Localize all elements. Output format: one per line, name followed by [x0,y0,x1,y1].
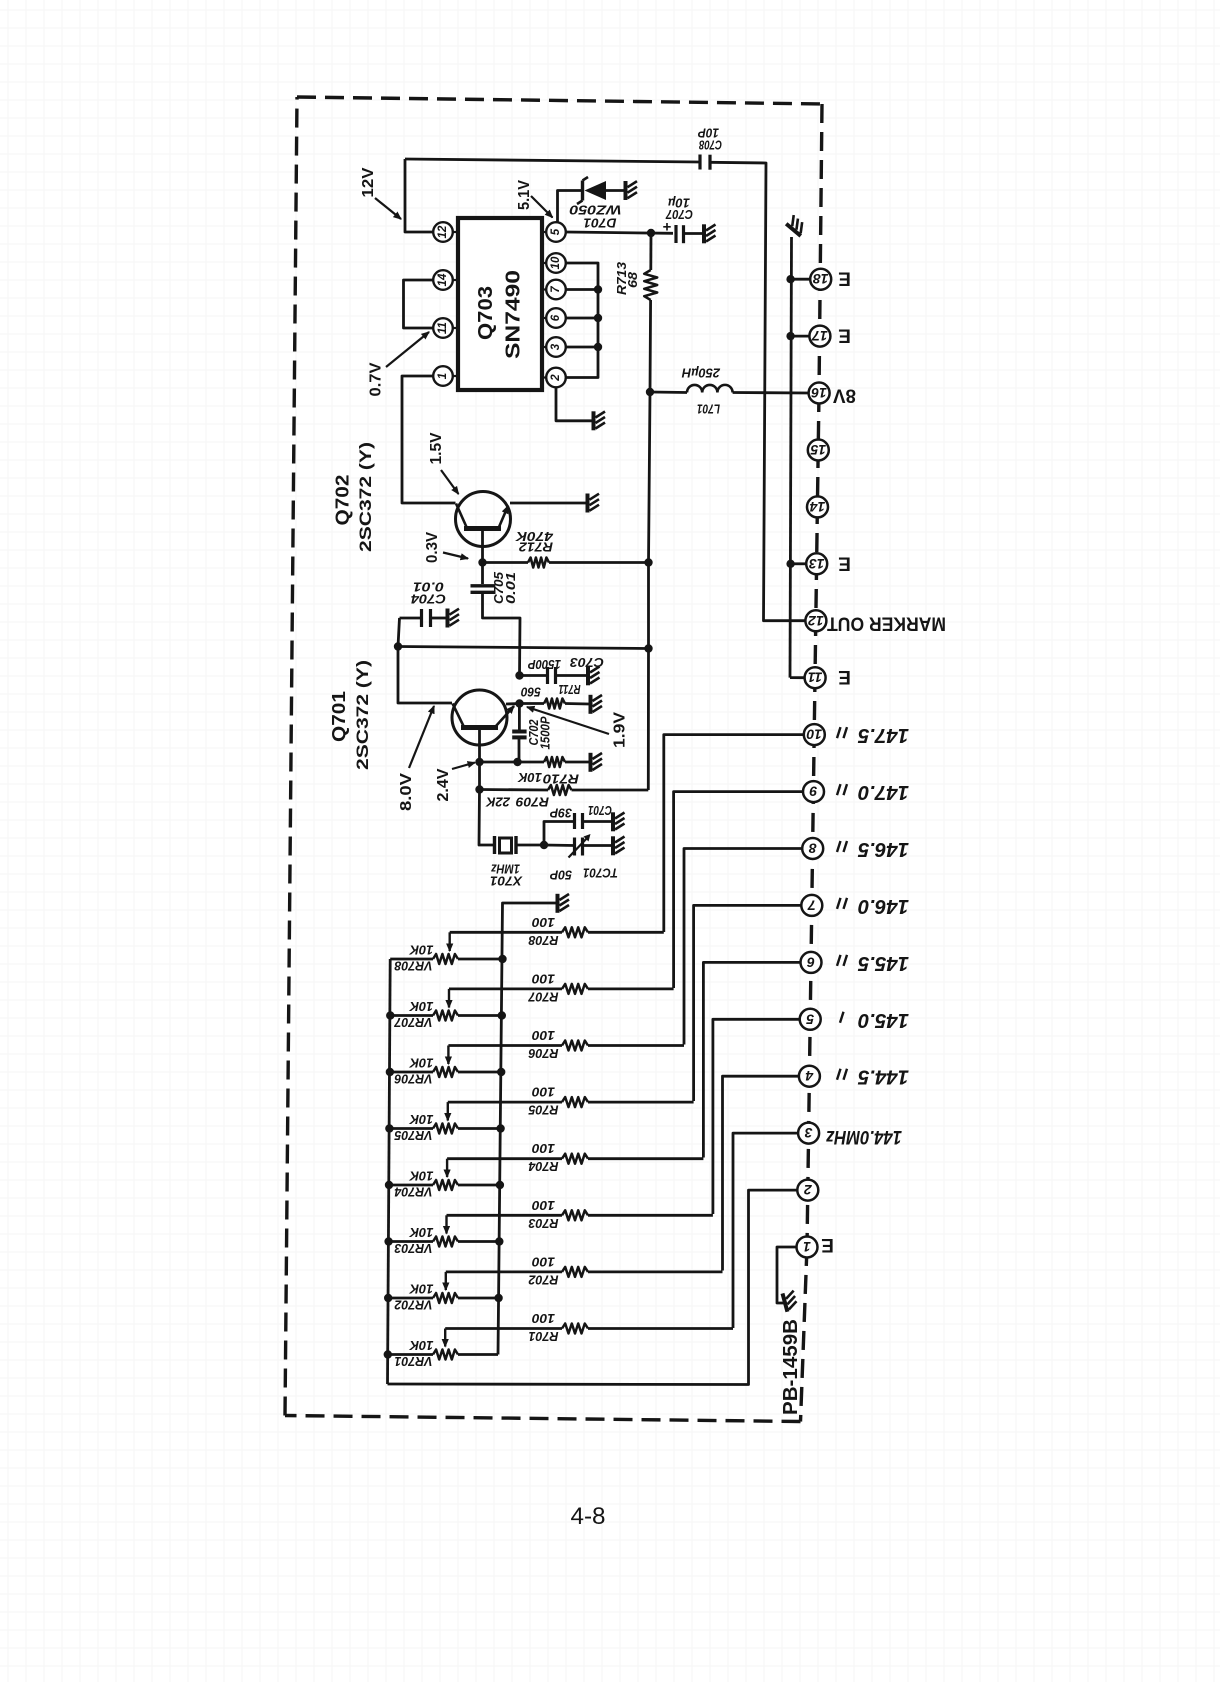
svg-text:Q703: Q703 [475,286,497,340]
resistor R713 68 [644,270,657,300]
svg-text:E: E [838,325,851,346]
svg-text:147.0: 147.0 [858,781,909,803]
svg-text:TC701: TC701 [583,866,618,880]
IC pin 14 [453,279,459,281]
edge pin 5 [800,1009,821,1030]
svg-text:R712: R712 [519,540,553,554]
svg-text:Q702: Q702 [333,475,353,526]
svg-text:R711: R711 [559,682,581,696]
svg-text:8.0V: 8.0V [398,772,415,811]
svg-text:16: 16 [811,385,827,401]
svg-text:2SC372 (Y): 2SC372 (Y) [357,442,375,552]
zener diode D701 WZ050 [581,181,584,201]
svg-text:15: 15 [810,442,826,458]
svg-text:1500P: 1500P [539,716,553,750]
staircase wires pins 10..3 to R708..R701 [664,735,804,932]
IC pin 7 [542,288,546,290]
svg-text:10K: 10K [517,770,542,784]
wire 12V supply to C708 [405,159,700,162]
potentiometer VR704 10K [389,1184,434,1187]
resistor R704 100 [447,1157,562,1160]
svg-text:2.4V: 2.4V [435,768,452,802]
board outline PB-1459B (dashed) [297,97,822,104]
edge pin 3 [798,1123,819,1144]
svg-text:6: 6 [807,954,815,970]
edge pin 12 [805,610,826,631]
capacitor C707 10u electrolytic [674,225,677,243]
svg-text:E: E [838,666,851,687]
svg-text:X701: X701 [490,874,523,888]
svg-text:14: 14 [437,273,449,286]
potentiometer VR705 10K [389,1127,433,1130]
svg-text:560: 560 [521,685,541,699]
svg-text:250µH: 250µH [681,366,721,380]
potentiometer VR701 10K [387,1353,433,1356]
resistor R702 100 [446,1271,562,1274]
svg-text:100: 100 [532,1141,555,1155]
svg-text:7: 7 [807,897,816,913]
svg-text:9: 9 [809,784,817,800]
inductor L701 250uH [646,388,654,396]
IC pin 2 [542,376,546,378]
edge pin 15 [808,440,829,461]
svg-text:10K: 10K [408,943,433,957]
svg-text:0.01: 0.01 [504,572,518,604]
svg-text:13: 13 [809,556,825,572]
svg-text:1.5V: 1.5V [428,432,445,465]
svg-text:R703: R703 [528,1216,558,1230]
svg-text:11: 11 [437,322,449,334]
wire pin5 up to zener D701 [558,191,583,222]
svg-text:8V: 8V [833,385,856,406]
svg-text:VR705: VR705 [393,1128,432,1142]
svg-text:100: 100 [532,1311,555,1325]
svg-text:10K: 10K [408,1169,433,1183]
resistor R708 100 [450,931,562,934]
resistor R712 470K [483,561,529,564]
edge pin 11 [805,667,826,688]
potentiometer VR708 10K [390,958,433,961]
8V feed line [398,647,649,649]
IC pin 10 [542,262,546,264]
svg-text:C701: C701 [588,803,612,817]
svg-text:10K: 10K [408,999,433,1013]
svg-text:1: 1 [437,373,449,379]
svg-text:18: 18 [813,271,829,287]
potentiometer VR707 10K [390,1014,433,1017]
potentiometer VR702 10K [388,1297,433,1300]
svg-text:1MHz: 1MHz [490,862,520,876]
svg-text:7: 7 [550,286,562,293]
svg-text:E: E [838,268,851,289]
ground at IC pin 2 [594,411,606,430]
svg-text:100: 100 [532,1254,555,1268]
capacitor C703 1500P [515,671,523,679]
capacitor C701 39P [544,822,575,846]
edge pin 13 [806,553,827,574]
svg-text:2: 2 [550,374,562,382]
svg-text:146.0: 146.0 [858,895,909,917]
svg-text:PB-1459B: PB-1459B [780,1319,802,1415]
edge pin 10 [804,724,825,745]
svg-text:11: 11 [808,670,823,686]
svg-text:VR707: VR707 [393,1015,432,1029]
IC pin 12 [453,231,459,233]
svg-text:E: E [821,1234,834,1255]
svg-text:VR701: VR701 [394,1354,432,1368]
left bus of ladder [388,959,391,1384]
capacitor C704 0.01 [400,617,422,620]
svg-text:MARKER OUT: MARKER OUT [827,613,946,634]
svg-text:146.5: 146.5 [857,838,909,860]
wire IC pin12 to 12V line [405,159,434,232]
svg-text:VR703: VR703 [394,1241,432,1255]
wire IC pin5 to C707 node [566,232,673,233]
transistor Q702 2SC372(Y) [456,492,511,547]
svg-text:8: 8 [809,841,817,857]
svg-text:2SC372 (Y): 2SC372 (Y) [354,660,372,770]
edge pin 7 [801,895,822,916]
svg-text:39P: 39P [549,806,572,820]
svg-text:10P: 10P [697,126,719,140]
ground at D701 [626,181,638,200]
resistor R701 100 [445,1327,562,1330]
ground at C707 [704,224,716,243]
svg-text:0.3V: 0.3V [424,531,441,563]
wire Q701 emitter to base node [506,702,520,705]
wire IC pin1 down to Q702 collector [402,376,456,503]
svg-text:R707: R707 [527,989,558,1003]
edge pin 18 [810,269,831,290]
edge pin 6 [801,952,822,973]
svg-text:2: 2 [804,1182,813,1198]
svg-text:1500P: 1500P [527,657,561,671]
svg-text:C708: C708 [699,138,722,152]
svg-text:10K: 10K [408,1056,433,1070]
svg-text:3: 3 [804,1125,812,1141]
svg-text:17: 17 [811,328,828,344]
wire C708 to corner down to pin 12 (marker out) [710,162,805,620]
wire pin1 to chassis ground [777,1247,797,1303]
chassis ground top right [786,215,808,236]
edge pin 17 [809,326,830,347]
svg-text:5: 5 [806,1011,814,1027]
svg-text:100: 100 [532,1085,555,1099]
edge pin 8 [802,838,823,859]
IC pin 6 [542,317,546,319]
wiper common bus to ground [498,903,556,1355]
wire pin2 to VR common bottom bus [388,1190,798,1384]
svg-text:1: 1 [803,1239,811,1255]
resistor R705 100 [448,1101,562,1104]
edge pin 16 [809,383,830,404]
svg-text:145.0: 145.0 [858,1009,909,1031]
svg-text:12: 12 [437,225,449,238]
svg-text:SN7490: SN7490 [503,270,525,359]
svg-text:0.01: 0.01 [413,580,444,594]
potentiometer VR703 10K [388,1240,433,1243]
bus IC pins 10-7-6-3-2 strap [566,263,598,378]
svg-text:R702: R702 [528,1272,558,1286]
svg-text:L701: L701 [697,402,720,416]
transistor Q701 2SC372(Y) [452,690,507,745]
IC pin 5 [542,231,546,233]
svg-text:VR706: VR706 [393,1072,432,1086]
svg-text:C707: C707 [665,207,693,221]
capacitor C702 1500P [518,705,521,730]
crystal X701 1MHz [479,790,495,846]
svg-text:5: 5 [550,228,562,235]
IC pin 11 [453,327,459,329]
capacitor C708 10P [698,155,701,170]
svg-text:D701: D701 [583,216,616,230]
resistor R710 10K [475,758,483,766]
wire IC pins 14-11 strap [404,280,434,328]
svg-text:E: E [838,552,851,573]
svg-text:4: 4 [805,1068,814,1084]
svg-text:147.5: 147.5 [857,724,909,746]
edge pin 1 [797,1237,818,1258]
edge pin 9 [803,781,824,802]
svg-text:R701: R701 [528,1329,558,1343]
svg-text:22K: 22K [485,795,511,809]
IC U-Q703 SN7490 body [458,218,542,390]
svg-text:100: 100 [532,915,555,929]
svg-text:10K: 10K [408,1338,433,1352]
svg-text:0.7V: 0.7V [368,362,385,397]
mid bus dots [494,1294,502,1302]
capacitor C705 0.01 [481,563,484,585]
svg-text:10K: 10K [408,1282,433,1296]
svg-text:14: 14 [810,499,826,515]
svg-text:68: 68 [625,271,640,288]
svg-text:144.0MHz: 144.0MHz [826,1126,902,1147]
svg-text:VR702: VR702 [394,1298,432,1312]
svg-text:1.9V: 1.9V [612,711,629,748]
svg-text:C704: C704 [411,592,446,606]
svg-text:10K: 10K [408,1112,433,1126]
resistor R703 100 [447,1214,563,1217]
ground bus to pins 18 17 13 11 [790,237,792,678]
svg-text:WZ050: WZ050 [569,203,621,217]
svg-text:4-8: 4-8 [571,1503,606,1530]
svg-text:Q701: Q701 [329,691,349,742]
svg-text:10: 10 [806,727,822,743]
svg-text:10K: 10K [408,1225,433,1239]
IC pin 3 [542,346,546,348]
svg-text:R704: R704 [528,1159,558,1173]
resistor R707 100 [449,988,562,991]
edge pin 2 [797,1180,818,1201]
IC pin 1 [453,375,459,377]
svg-text:R709: R709 [516,795,549,809]
potentiometer VR706 10K [389,1071,433,1074]
svg-text:50P: 50P [549,868,572,882]
svg-text:144.5: 144.5 [857,1066,909,1088]
svg-text:R710: R710 [543,772,579,786]
svg-text:R706: R706 [527,1046,558,1060]
svg-text:145.5: 145.5 [857,952,909,974]
svg-text:R705: R705 [527,1103,558,1117]
svg-text:VR704: VR704 [394,1185,432,1199]
edge pin 14 [807,496,828,517]
svg-text:VR708: VR708 [394,959,432,973]
svg-text:100: 100 [532,1028,555,1042]
svg-text:C703: C703 [570,655,604,669]
svg-text:12V: 12V [360,167,377,198]
trimmer TC701 50P [544,844,575,847]
svg-text:5.1V: 5.1V [516,179,533,210]
resistor R711 560 [520,702,545,705]
svg-text:100: 100 [532,1198,555,1212]
svg-text:3: 3 [550,343,562,350]
wire Q702 emitter to ground [510,502,586,505]
svg-text:12: 12 [808,613,824,629]
svg-text:6: 6 [550,314,562,321]
edge pin 4 [799,1066,820,1087]
bus C704 to 8V line to Q701 collector [398,618,452,703]
svg-text:R708: R708 [528,933,558,947]
resistor R706 100 [448,1044,562,1047]
resistor R709 22K [478,762,481,790]
bus from pin5 node down through R713 to 8V line and R709 [649,233,652,270]
svg-text:100: 100 [532,971,555,985]
wire IC pin2 to ground [556,387,592,421]
svg-text:10: 10 [550,256,562,269]
